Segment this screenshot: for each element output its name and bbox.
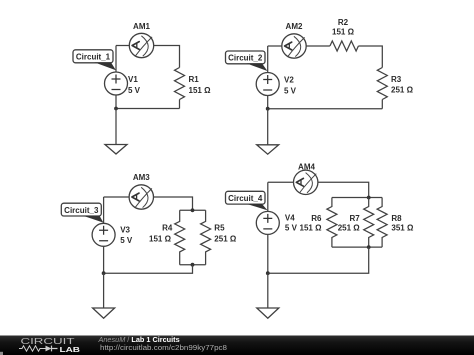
resistor R2 (330, 41, 359, 51)
wire to ground c1 (115, 109, 117, 145)
svg-text:AM2: AM2 (286, 22, 303, 31)
wire corner down to V2 top (267, 46, 269, 73)
wire AM3 right to parallel feed (154, 197, 193, 210)
voltage source V1 (105, 72, 128, 95)
wire parallel feed down to rail (104, 265, 193, 274)
ground c4 (257, 308, 279, 318)
wire R3 bottom (381, 100, 383, 109)
wire V4 bottom (267, 234, 269, 273)
ammeter AM1 (129, 33, 153, 57)
wire AM4 right to parallel feed (318, 182, 369, 197)
wire AM2 right to R2 left (306, 45, 330, 47)
junction dot c3 rail (102, 271, 106, 275)
ground c3 (93, 308, 115, 318)
resistor R1 (175, 68, 185, 100)
junction dot c3 bottom bar (191, 263, 195, 267)
wire to ground c3 (103, 273, 105, 308)
callout Circuit_2 (226, 51, 266, 64)
svg-text:5 V: 5 V (128, 86, 141, 95)
wire top bar R4-R5 (180, 209, 206, 211)
svg-text:V2: V2 (284, 76, 294, 85)
callout Circuit_1 (73, 50, 113, 63)
svg-text:V4: V4 (285, 214, 295, 223)
svg-text:R3: R3 (391, 75, 402, 84)
wire V2 bottom (267, 96, 269, 109)
svg-text:V1: V1 (128, 75, 138, 84)
wire to ground c2 (267, 109, 269, 145)
resistor R4 (175, 210, 185, 264)
svg-text:5 V: 5 V (285, 223, 298, 232)
svg-text:LAB: LAB (60, 345, 81, 354)
logo resistor zigzag (19, 346, 46, 351)
junction dot c1 (114, 107, 118, 111)
svg-text:AM1: AM1 (133, 22, 150, 31)
svg-text:5 V: 5 V (284, 87, 297, 96)
svg-text:Circuit_3: Circuit_3 (64, 206, 99, 215)
junction dot c4 bottom bar (367, 245, 371, 249)
svg-text:V3: V3 (120, 226, 130, 235)
callout tail Circuit_4 (247, 204, 268, 210)
wire bottom bar R4-R5 (180, 264, 206, 266)
svg-text:R4: R4 (162, 224, 173, 233)
svg-text:151 Ω: 151 Ω (332, 28, 355, 37)
wire corner down to V1 top (115, 46, 117, 73)
wire corner down to V4 top (267, 182, 269, 211)
resistor R7 (364, 198, 374, 248)
svg-text:Circuit_1: Circuit_1 (76, 53, 111, 62)
svg-text:251 Ω: 251 Ω (214, 235, 237, 244)
wire R2 right to R3 top (358, 46, 382, 68)
ammeter AM4 (294, 170, 318, 194)
junction dot c4 rail (266, 271, 270, 275)
wire AM1 right to R1 top (154, 46, 180, 68)
wire V1 bottom (115, 95, 117, 109)
wire bottom rail c2 (268, 108, 383, 110)
svg-text:R6: R6 (311, 214, 322, 223)
wire AM2 left to corner (268, 45, 282, 47)
wire AM4 left to corner (268, 181, 294, 183)
junction dot c2 (266, 107, 270, 111)
ammeter AM3 (129, 185, 153, 209)
wire top bar R6-R8 (332, 197, 382, 199)
wire AM1 left to corner (116, 45, 129, 47)
resistor R8 (377, 198, 387, 248)
wire V3 bottom (103, 246, 105, 273)
ground c1 (105, 145, 127, 155)
svg-text:151 Ω: 151 Ω (149, 235, 172, 244)
wire AM3 left to corner (104, 196, 130, 198)
junction dot c3 top (191, 208, 195, 212)
voltage source V4 (256, 211, 279, 234)
svg-text:Circuit_4: Circuit_4 (228, 194, 263, 203)
voltage source V2 (256, 73, 279, 96)
svg-text:251 Ω: 251 Ω (391, 86, 414, 95)
wire parallel feed down to rail c4 (268, 247, 369, 273)
svg-text:AM3: AM3 (133, 173, 150, 182)
resistor R5 (201, 210, 211, 264)
svg-text:AnesuM / Lab 1 Circuits: AnesuM / Lab 1 Circuits (98, 335, 180, 344)
wire R1 bottom (179, 100, 181, 109)
svg-text:351 Ω: 351 Ω (391, 223, 414, 232)
ammeter AM2 (282, 34, 306, 58)
wire to ground c4 (267, 273, 269, 308)
callout Circuit_3 (61, 203, 101, 216)
resistor R6 (327, 198, 337, 248)
footer background (0, 336, 474, 355)
svg-text:R1: R1 (189, 75, 200, 84)
svg-text:Circuit_2: Circuit_2 (228, 54, 263, 63)
svg-text:R7: R7 (349, 214, 360, 223)
svg-text:R8: R8 (391, 214, 402, 223)
svg-text:R2: R2 (338, 18, 349, 27)
callout tail Circuit_3 (83, 216, 103, 223)
voltage source V3 (92, 223, 115, 246)
callout tail Circuit_1 (95, 62, 116, 70)
wire bottom rail c1 (116, 108, 180, 110)
logo diode (46, 346, 58, 352)
junction dot c4 top (367, 196, 371, 200)
svg-text:5 V: 5 V (120, 236, 133, 245)
ground c2 (257, 145, 279, 154)
callout tail Circuit_2 (247, 63, 268, 71)
wire bottom bar R6-R8 (332, 246, 382, 248)
svg-text:151 Ω: 151 Ω (300, 223, 323, 232)
svg-text:http://circuitlab.com/c2bn99ky: http://circuitlab.com/c2bn99ky77pc8 (100, 345, 227, 352)
callout Circuit_4 (226, 191, 266, 204)
wire corner down to V3 top (103, 197, 105, 223)
svg-text:251 Ω: 251 Ω (338, 223, 361, 232)
resistor R3 (377, 68, 387, 100)
corner notch (0, 352, 3, 355)
svg-text:151 Ω: 151 Ω (189, 86, 212, 95)
svg-text:R5: R5 (214, 224, 225, 233)
